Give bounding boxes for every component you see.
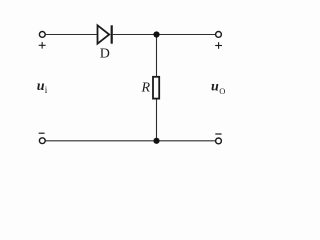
terminal output top [216, 32, 222, 38]
svg-text:u: u [211, 79, 219, 94]
svg-text:R: R [141, 80, 151, 95]
wire vertical lower [156, 99, 158, 141]
plus sign output [215, 42, 222, 49]
minus sign input [39, 132, 45, 134]
plus sign input [39, 42, 46, 49]
wire vertical upper [156, 35, 158, 77]
node bottom junction [153, 138, 159, 144]
svg-text:D: D [100, 46, 110, 61]
wire top-right segment [113, 34, 216, 36]
terminal input top [39, 32, 45, 38]
wire top-left segment [45, 34, 97, 36]
terminal output bottom [216, 138, 222, 144]
svg-text:O: O [219, 86, 225, 96]
terminal input bottom [39, 138, 45, 144]
wire bottom rail [45, 140, 215, 142]
svg-text:u: u [37, 79, 45, 94]
diode D [98, 25, 112, 43]
node top junction [153, 31, 159, 37]
minus sign output [215, 133, 221, 135]
resistor R [153, 77, 159, 99]
